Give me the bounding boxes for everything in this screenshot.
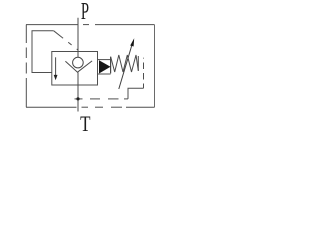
wire P line <box>77 18 79 58</box>
pilot line diagonal (dashed) <box>54 31 78 50</box>
pilot line left loop <box>32 31 54 73</box>
enclosure left edge <box>25 25 27 108</box>
spring end bar <box>137 56 139 71</box>
svg-text:T: T <box>80 112 90 137</box>
check valve ball <box>73 57 84 68</box>
drain line riser <box>128 88 144 99</box>
svg-text:P: P <box>81 0 89 25</box>
relief duct upper wall <box>98 59 111 61</box>
enclosure top edge <box>26 24 155 26</box>
drain line dashed horizontal <box>90 98 128 100</box>
valve body box <box>52 52 98 86</box>
relief poppet (black triangle) <box>99 60 111 73</box>
throttle arrow head <box>54 75 58 80</box>
adjustment arrow head <box>130 38 134 46</box>
throttle arrow shaft <box>55 57 57 75</box>
node T junction <box>76 97 79 100</box>
spring <box>111 55 139 72</box>
enclosure right edge <box>154 25 156 108</box>
relief seat bar <box>110 57 112 73</box>
adjustment arrow shaft <box>119 45 132 89</box>
drain line stub at T junction <box>75 98 83 100</box>
relief duct lower wall <box>98 73 111 75</box>
enclosure bottom edge <box>26 106 155 108</box>
drain line dashed vertical <box>143 58 145 88</box>
wire T line <box>77 72 79 111</box>
check valve seat <box>65 61 92 72</box>
